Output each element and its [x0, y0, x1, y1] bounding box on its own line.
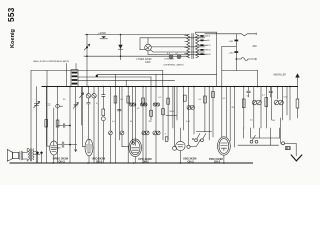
wire drop x290: [289, 87, 291, 121]
wire drop x230.2: [229, 87, 231, 142]
wire long drop: [216, 32, 218, 86]
svg-text:+230: +230: [228, 52, 234, 54]
wire drop x183.4: [182, 87, 184, 131]
svg-text:553: 553: [7, 7, 16, 22]
wire drop x57.5: [57, 87, 59, 164]
resistor R9: [204, 96, 207, 103]
wire drop x94: [93, 87, 95, 164]
wire mains vertical: [235, 34, 237, 71]
wire bottom bus2: [238, 144, 279, 146]
wire stub below diode: [120, 56, 122, 60]
main bus: [42, 86, 298, 88]
tube V3 outer envelope: [129, 139, 142, 157]
trimmer cap x75.7: [73, 103, 78, 109]
wire bottom bus1: [251, 137, 280, 139]
wire T5 grid: [221, 87, 223, 137]
resistor R8: [184, 95, 187, 101]
wire heater line: [148, 51, 205, 55]
wire drop x115.4: [114, 87, 116, 164]
resistor R12: [265, 98, 268, 107]
wire drop x146: [145, 87, 147, 132]
svg-text:0,1: 0,1: [96, 103, 100, 105]
svg-text:1M: 1M: [272, 120, 275, 122]
variable capacitor C1: [34, 101, 40, 107]
svg-text:+2000: +2000: [98, 31, 106, 35]
capacitor C4: [118, 109, 121, 111]
wire drop x103.3: [102, 87, 104, 110]
svg-text:0,1: 0,1: [262, 95, 266, 97]
wire drop x243.4: [242, 128, 244, 138]
IF coil block Fi1: [71, 70, 78, 87]
wire drop diode: [120, 35, 122, 57]
output transformer TR2 core: [31, 149, 32, 161]
wire drop L1: [162, 71, 164, 87]
cap can circle: [120, 131, 124, 135]
wire drop x81.4: [80, 87, 82, 126]
transformer TR1 primary taps: [185, 36, 187, 54]
tube V2 electrodes: [86, 139, 91, 153]
ground rail: [10, 162, 253, 164]
wire loop L2: [97, 73, 217, 75]
wire V1 grid: [47, 87, 50, 147]
svg-text:220: 220: [253, 45, 258, 48]
wire drop x277.5: [277, 87, 279, 100]
wire T5 screen: [226, 87, 228, 137]
wire V4 plate: [179, 128, 181, 141]
wire drop x156b: [155, 74, 157, 86]
wire B+ feed: [222, 46, 237, 48]
voltage selector arrow: [84, 44, 90, 50]
resistor R7: [167, 98, 170, 104]
wire T3 grid lead: [131, 87, 133, 143]
volume pot pair: [187, 106, 191, 110]
svg-text:0,5: 0,5: [199, 99, 203, 101]
terminal -230: [234, 40, 238, 42]
svg-text:50: 50: [130, 121, 133, 123]
wire fuse line: [236, 58, 241, 60]
wire tube right leads: [151, 46, 204, 48]
tube V5 inner envelope: [219, 139, 229, 154]
wire drop x279.7: [279, 128, 281, 138]
fuse F1: [241, 58, 248, 61]
wire V3 grid stub: [122, 146, 129, 148]
wire drop x119.3: [118, 87, 120, 141]
wire drop x151: [150, 87, 152, 121]
wire drop left: [86, 35, 88, 87]
tube V3 top circle: [132, 142, 134, 144]
wire V1 plate: [53, 108, 55, 141]
dial lamp LA1: [169, 55, 173, 59]
wire rectifier box top: [140, 38, 205, 50]
svg-text:6,3: 6,3: [207, 36, 211, 38]
svg-text:30: 30: [207, 40, 210, 42]
node junction: [120, 34, 122, 36]
pot P2: [274, 100, 279, 105]
wire drop x36.5: [36, 87, 38, 164]
wire V4 cathode: [179, 151, 181, 163]
wire link y131: [196, 130, 211, 132]
svg-text:50: 50: [63, 99, 66, 101]
output transformer TR2 primary: [28, 149, 29, 160]
wire HT rail top: [85, 34, 188, 36]
trimmer circle: [56, 104, 60, 108]
pot pair A: [142, 131, 146, 135]
terminal +230: [234, 51, 238, 53]
wire transformer top to drop: [196, 32, 217, 34]
wire V3 cathode: [134, 157, 136, 164]
jack circle: [173, 146, 177, 150]
arrow to speaker field: [297, 75, 299, 87]
svg-text:0,25: 0,25: [186, 121, 191, 123]
resistor R4: [114, 96, 117, 103]
wire drop x282.5: [282, 87, 284, 121]
wire to speaker field: [222, 70, 258, 72]
resistor R11: [242, 99, 245, 108]
wire terminal drops: [38, 154, 42, 163]
svg-text:22: 22: [48, 102, 51, 106]
wire T3 screen lead: [134, 87, 136, 146]
wire loop L3: [78, 76, 151, 78]
svg-text:QH-2: QH-2: [143, 160, 150, 164]
transformer TR1 core: [192, 33, 193, 58]
wire drop x271.6: [271, 87, 273, 121]
wire drop x110.4: [109, 87, 111, 132]
svg-text:2M: 2M: [232, 107, 235, 109]
resistor R3: [102, 109, 105, 116]
resistor R2: [56, 120, 59, 127]
wire drop x156: [155, 87, 157, 132]
tube V1 electrodes: [51, 141, 57, 152]
tube V1 envelope: [50, 141, 58, 155]
wire drop L3: [150, 77, 152, 87]
transformer terminal blocks: [200, 35, 203, 37]
tube V2 envelope: [85, 139, 93, 156]
svg-text:LANG-,KURZ-U.SPERRKREIS-TASTE: LANG-,KURZ-U.SPERRKREIS-TASTE: [33, 60, 70, 63]
capacitor C5: [247, 87, 250, 98]
wire drop x194: [193, 87, 195, 135]
svg-text:4000: 4000: [56, 147, 61, 149]
resistor R10: [212, 92, 215, 98]
wire V1 cathode: [53, 155, 55, 163]
node junction: [86, 34, 88, 36]
capacitor C6: [269, 87, 272, 98]
wire drop x115.3: [114, 74, 116, 86]
band switch S2: [195, 139, 198, 142]
wire column x47: [46, 71, 48, 87]
trimmer T pair: [86, 94, 90, 98]
resistor R14: [162, 109, 165, 115]
rectifier tube U6: [145, 44, 152, 51]
wire drop x213: [212, 87, 214, 138]
wire drop x126.2: [125, 80, 127, 86]
wire drop x177: [176, 87, 178, 121]
wire drop x287: [286, 87, 288, 116]
svg-text:Koenig: Koenig: [10, 28, 16, 48]
tube V3 electrodes: [132, 148, 139, 153]
terminal diamonds: [36, 151, 39, 154]
wire transformer to terminals: [35, 151, 40, 154]
node junction dot: [96, 75, 98, 77]
svg-text:0,1: 0,1: [120, 99, 124, 101]
svg-text:2M: 2M: [149, 121, 152, 123]
wire B+ drop: [221, 47, 223, 87]
tube V3 inner envelope: [130, 141, 140, 155]
cap can circle: [109, 131, 113, 135]
svg-text:220: 220: [207, 54, 211, 56]
wire drop x234.4: [233, 87, 235, 148]
wire loop L1: [31, 70, 163, 72]
wire mains top: [205, 33, 242, 35]
pot P1: [252, 100, 257, 105]
wire V2 cathode: [88, 156, 90, 163]
wire V2 grid side: [83, 87, 86, 147]
IF trimmer pair 2: [141, 103, 144, 106]
wire pickup drop: [279, 118, 281, 143]
svg-text:0,1: 0,1: [112, 121, 116, 123]
speaker magnet hatch: [20, 151, 23, 160]
wire left column: [30, 71, 32, 149]
resistor R5: [127, 96, 130, 103]
svg-text:MAGN.LSP.: MAGN.LSP.: [274, 74, 287, 77]
wire coil feeds: [66, 64, 68, 87]
svg-text:+: +: [165, 132, 167, 135]
output transformer TR2 secondary: [33, 149, 34, 160]
svg-text:QH-3: QH-3: [59, 159, 66, 163]
wire to earth: [285, 143, 296, 145]
svg-text:125: 125: [207, 45, 211, 47]
wire lower rail: [84, 55, 189, 57]
wire drop x168.1: [167, 87, 169, 141]
wire drop x266.3: [265, 87, 267, 129]
svg-text:U.SPERRKR.-TASTE): U.SPERRKR.-TASTE): [163, 64, 184, 67]
pot pair B: [153, 131, 157, 135]
svg-text:0,2: 0,2: [159, 97, 163, 99]
svg-text:(TON ABN.: (TON ABN.: [164, 58, 175, 61]
wire earth drop: [295, 144, 297, 156]
wire drop x253.8: [253, 87, 255, 129]
wire drop x259.7: [259, 128, 261, 138]
wire drop x188.5: [188, 87, 190, 146]
bus junction dots: [46, 86, 48, 88]
svg-text:150: 150: [207, 50, 211, 52]
svg-text:QH-3: QH-3: [96, 159, 103, 163]
wire tube left lead: [140, 49, 145, 51]
capacitor C3: [102, 95, 105, 97]
resistor R6: [142, 98, 145, 105]
IF trimmer pair 1: [129, 103, 132, 106]
svg-text:1200: 1200: [145, 61, 151, 64]
wire drop x143: [142, 87, 144, 164]
wire V5 cathode: [223, 155, 225, 163]
capacitor C7: [58, 142, 77, 147]
svg-text:0,1: 0,1: [223, 98, 227, 100]
wire drop x98.2: [97, 87, 99, 164]
dial lamp LA2: [177, 55, 181, 59]
wire drop x209.2: [208, 87, 210, 141]
capacitor C2: [63, 124, 65, 128]
transformer TR1 primary: [187, 34, 190, 58]
wire drop x243.8: [243, 87, 245, 129]
svg-text:QH-2: QH-2: [188, 159, 195, 163]
wire drop x46.3: [45, 87, 47, 164]
small resistor mid bottom: [165, 137, 168, 142]
svg-text:50: 50: [247, 96, 250, 98]
wire jack to switch: [190, 140, 200, 147]
svg-text:0,25: 0,25: [284, 97, 289, 99]
wire drop x163: [162, 87, 164, 141]
wire drop x250.7: [250, 128, 252, 138]
wire loop L4: [78, 79, 175, 81]
wire link y115: [166, 114, 177, 116]
pickup hook: [282, 142, 285, 145]
coupling wire: [58, 125, 71, 127]
transformer TR1 tap wires: [199, 36, 208, 54]
jack circle small: [187, 145, 190, 148]
svg-text:QH-2: QH-2: [214, 160, 221, 164]
resistor R1: [45, 120, 48, 128]
tube V5 electrodes: [221, 143, 228, 151]
tube V5 outer envelope: [218, 137, 231, 155]
wire drop x172.9: [172, 87, 174, 129]
tube V4 envelope: [176, 141, 185, 150]
wire drop x122: [121, 87, 123, 132]
wire drop x270.6: [270, 128, 272, 145]
wire drop x88.4: [87, 87, 89, 140]
tube V4 electrodes: [178, 145, 184, 147]
svg-text:-230: -230: [229, 41, 234, 43]
wire tube top lead: [147, 38, 149, 44]
wire field drop: [257, 71, 259, 87]
loudspeaker LS: [7, 150, 12, 162]
pot circle: [101, 117, 105, 121]
tap wedge mark: [101, 36, 106, 38]
wire drop x75.7: [75, 87, 77, 152]
wire drop x70: [69, 87, 71, 164]
svg-text:5000: 5000: [170, 111, 175, 113]
switch S3: [250, 140, 253, 143]
transformer TR1 secondary: [196, 34, 199, 58]
wire drop x128.2: [127, 87, 129, 164]
diode D1: [118, 45, 122, 49]
wire speaker to transformer: [23, 149, 29, 161]
svg-text:50: 50: [137, 108, 140, 110]
earth arrow: [291, 155, 302, 161]
wire drop x261: [260, 87, 262, 129]
rail junction dots: [52, 162, 54, 164]
resistor R13: [150, 110, 153, 116]
mains switch S1: [242, 33, 257, 36]
svg-text:0,5: 0,5: [250, 120, 254, 122]
wire drop x297.5 resistor: [296, 99, 299, 108]
IF trimmer pair 3: [153, 103, 156, 106]
wire drop x204.9: [204, 87, 206, 133]
earth capacitor: [285, 147, 290, 150]
